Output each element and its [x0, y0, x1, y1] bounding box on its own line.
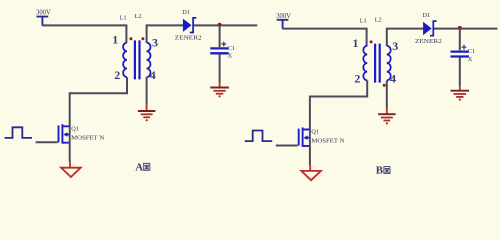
ground triangle below Q1 (B) [301, 165, 321, 180]
wire 300V rail to transformer pin 1 (A) [42, 25, 126, 42]
svg-text:Q1: Q1 [311, 129, 319, 136]
svg-text:C1: C1 [468, 48, 475, 55]
wire gate input (B) [276, 145, 298, 147]
transformer T1 secondary winding (B) [387, 46, 391, 81]
svg-text:300V: 300V [36, 9, 51, 17]
wire gate input (A) [36, 141, 58, 143]
transformer T1 core (B) [375, 44, 380, 83]
svg-text:1: 1 [353, 36, 359, 50]
power ground below C1 (A) [210, 82, 229, 98]
svg-text:X: X [468, 56, 473, 63]
svg-text:4: 4 [390, 71, 396, 85]
svg-text:ZENER2: ZENER2 [415, 38, 442, 45]
svg-text:4: 4 [150, 68, 156, 82]
svg-text:2: 2 [114, 68, 120, 82]
junction node diode-capacitor (B) [458, 26, 462, 30]
wire pin 2 to MOSFET drain (B) [310, 80, 367, 129]
power ground below C1 (B) [451, 85, 470, 101]
wire transformer pin 3 to diode anode (A) [147, 25, 184, 42]
svg-text:B: B [376, 165, 384, 177]
capacitor C1 plates (B) [451, 52, 469, 57]
svg-text:ZENER2: ZENER2 [175, 35, 202, 42]
wire MOSFET source to ground (A) [69, 143, 71, 162]
svg-text:MOSFET N: MOSFET N [311, 138, 344, 145]
diode D1 zener (A) [183, 18, 196, 33]
wire transformer pin 3 to diode anode (B) [387, 29, 424, 46]
power port 300V (A) [37, 17, 49, 26]
polarity dot secondary top (A) [141, 37, 144, 40]
power ground below pin 4 (A) [138, 104, 156, 121]
wire pin 4 down (B) [386, 80, 388, 107]
svg-text:L1: L1 [360, 18, 367, 25]
pulse waveform symbol (B) [245, 131, 272, 142]
wire MOSFET source to ground (B) [309, 146, 311, 165]
transistor Q1 MOSFET N (B) [299, 127, 310, 146]
diode D1 zener (B) [423, 21, 436, 36]
svg-text:L2: L2 [135, 13, 142, 20]
wire junction down to capacitor C1 (B) [459, 29, 461, 51]
transformer T1 primary winding (A) [123, 43, 127, 78]
wire pin 4 down (A) [146, 77, 148, 104]
wire junction down to capacitor C1 (A) [219, 25, 221, 47]
svg-text:MOSFET N: MOSFET N [71, 134, 104, 141]
pulse waveform symbol (A) [5, 127, 32, 138]
svg-text:3: 3 [152, 36, 158, 50]
polarity dot primary top (A) [129, 37, 132, 40]
power ground below pin 4 (B) [378, 107, 396, 124]
wire capacitor to ground (A) [219, 54, 221, 82]
svg-text:A: A [135, 161, 143, 173]
svg-text:2: 2 [354, 71, 360, 85]
polarity plus of C1 (A) [221, 42, 226, 47]
junction node diode-capacitor (A) [218, 23, 222, 27]
svg-text:3: 3 [392, 39, 398, 53]
svg-text:L1: L1 [120, 14, 127, 21]
wire 300V rail to transformer pin 1 (B) [282, 29, 366, 46]
svg-text:300V: 300V [276, 12, 291, 20]
wire capacitor to ground (B) [459, 57, 461, 85]
svg-text:X: X [228, 53, 233, 60]
label A图 (A) [135, 161, 150, 173]
transformer T1 core (A) [135, 40, 140, 79]
svg-text:1: 1 [112, 33, 118, 47]
polarity plus of C1 (B) [462, 45, 467, 50]
svg-text:D1: D1 [182, 9, 190, 16]
capacitor C1 plates (A) [210, 48, 228, 53]
wire diode cathode to output (A) [194, 24, 258, 26]
transistor Q1 MOSFET N (A) [59, 124, 70, 143]
svg-text:D1: D1 [423, 12, 431, 19]
ground triangle below Q1 (A) [61, 162, 81, 177]
wire diode cathode to output (B) [434, 28, 498, 30]
svg-text:Q1: Q1 [71, 125, 79, 132]
label B图 (B) [376, 165, 390, 177]
wire pin 2 to MOSFET drain (A) [70, 77, 127, 126]
svg-text:C1: C1 [228, 45, 235, 52]
polarity dot secondary bottom (B) [383, 84, 386, 87]
transformer T1 primary winding (B) [363, 46, 367, 81]
transformer T1 secondary winding (A) [147, 43, 151, 78]
polarity dot primary top (B) [370, 40, 373, 43]
svg-text:L2: L2 [375, 16, 382, 23]
power port 300V (B) [277, 20, 289, 29]
